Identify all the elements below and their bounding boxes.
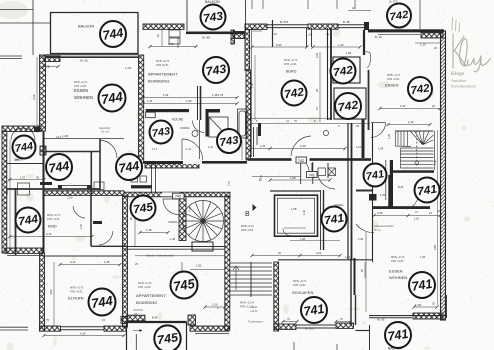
apartment circle 743 balcony [201,5,226,30]
wall bottom hatched d [274,324,296,329]
dim tick 41 [281,320,284,323]
svg-text:MFB +9,70: MFB +9,70 [241,224,254,228]
wall apt745 top hatched [124,192,230,197]
wall corridor y249 [124,248,225,250]
dim 70b line [283,321,297,323]
toilet bar 744 [40,182,52,185]
svg-text:1,10: 1,10 [356,145,362,149]
wall eltern top [45,255,125,257]
apartment circle 741 schlafen [301,297,327,323]
dim tick 29 [148,45,151,48]
door arc essen 742 [363,52,372,69]
dim y240 corridor [290,240,340,242]
dimension y180 [270,179,330,181]
wire window sill essen742 [378,33,420,35]
wall x368 essen left [368,70,370,130]
wall y330 stub [356,330,371,332]
svg-text:741: 741 [387,326,410,344]
wire top tick 3 [307,0,309,9]
dimension vertical x54 [53,262,55,326]
svg-text:ESSEN: ESSEN [385,83,399,88]
apartment circle 744 kind [16,208,41,233]
svg-text:Kreisoberamtsrat: Kreisoberamtsrat [451,85,476,89]
dim tick 0 [250,45,253,48]
wire left small line 1 [0,55,22,57]
wall corner x364 [364,22,369,30]
dim tick 42 [295,320,298,323]
svg-text:KÜCHE: KÜCHE [172,118,183,122]
svg-text:1,98: 1,98 [291,207,297,211]
wall balcony mid bottom [7,163,44,165]
wall pillar hatched [188,315,196,325]
winder stair 742 [395,131,434,170]
apartment circle 741 hall [364,164,387,187]
dim tick 33 [8,178,11,181]
door swing kind [73,206,85,218]
wire bottom tick b [336,344,338,350]
wall x312 [311,163,313,178]
svg-text:1,08: 1,08 [346,51,352,55]
kitchen counter right 743 [208,109,221,113]
wire top dim line right [348,10,371,12]
wall corridor 744 bottom [91,245,125,247]
vanity counter 744 [58,185,92,189]
dimension row y148 [250,148,345,150]
svg-text:1,40: 1,40 [303,210,306,215]
svg-text:BOARDING: BOARDING [148,79,169,84]
dim tick 11 [372,214,375,217]
label box 741 [307,172,318,178]
dimension line 150 [150,46,196,48]
dimension vertical x162 [161,26,163,47]
svg-text:BALKON: BALKON [78,24,94,29]
wall hatch v x231 [231,30,235,44]
svg-text:Klassenschutztür: Klassenschutztür [374,224,394,228]
dim tick 37 [268,178,271,181]
dim tick 31 [138,231,141,234]
svg-text:BALKON: BALKON [205,0,220,4]
door swing 743 a [182,139,203,160]
svg-text:1,05: 1,05 [380,193,386,197]
wall corridor y246 [124,246,225,248]
wc fixtures left of balcony743 [169,30,180,44]
svg-text:741: 741 [411,276,434,294]
dim tick 2 [311,45,314,48]
door swing 743 b [193,121,205,133]
dim tick 15 [90,235,93,238]
dimension line 75 [44,66,58,68]
svg-text:4,18: 4,18 [80,332,86,336]
apartment circle 741 essen upper [415,178,440,203]
wire left small line 2 [0,58,22,60]
wall vertical hatched x245 [245,29,250,70]
apartment circle 744 bath a [46,154,72,180]
svg-text:3,85: 3,85 [5,189,9,195]
wall corridor above bath square [270,190,320,192]
svg-text:FFB +9,81: FFB +9,81 [47,217,60,221]
wall top hatched A [143,24,184,29]
svg-text:MFB +9,70: MFB +9,70 [47,213,61,217]
dimension 314 [10,236,92,238]
svg-text:FFB +9,81: FFB +9,81 [391,259,404,263]
wall vertical hatched x138 between 744 743 [139,55,144,163]
apartment circle 741 balcony [385,322,411,348]
machine room box [192,242,213,251]
svg-text:MFB +9,70: MFB +9,70 [387,73,401,77]
svg-text:MFB +9,70: MFB +9,70 [74,80,88,84]
wire bottom tick a [293,342,295,350]
wall apt743 bottom hatch [145,164,199,168]
svg-text:B: B [245,211,250,218]
wall between baths 744 [90,152,92,196]
closet walls 742 [307,28,312,47]
svg-text:APPARTEMENT: APPARTEMENT [148,72,178,77]
dim tick b2 [122,334,125,337]
dim tick 17 [338,254,341,257]
svg-text:FFB +9,81: FFB +9,81 [293,283,306,287]
dimension row y47 right [313,46,360,48]
room bad 742 upper [333,57,360,83]
door swing 745 entry [163,199,179,215]
svg-text:Nr. 870: Nr. 870 [305,327,314,331]
svg-text:SCHLAFEN: SCHLAFEN [292,290,313,295]
dim tick 12 [438,214,441,217]
wall x347 double [348,123,352,260]
apartment circle 743 room [203,57,229,83]
dark block wall joint [34,127,40,132]
window bottom inner d [296,327,336,329]
svg-text:B 98: B 98 [152,316,158,320]
wall hatch above detail box [127,315,145,321]
wall x327 double [328,28,332,120]
dimension line vertical x37 [36,57,38,133]
apartment circle 743 bath [217,129,241,153]
wall bottom hatched e [336,323,354,328]
wall kind top [7,188,100,190]
svg-text:MFB +9,70: MFB +9,70 [293,279,307,283]
dim y43 right [415,42,440,44]
dim tick 6 [141,102,144,105]
dim y179 [8,179,44,181]
svg-text:1,10: 1,10 [414,217,420,221]
wall vertical hatched x246 lower [246,70,251,160]
wall hatch right of balcony743 [233,32,245,39]
svg-text:VORFL.: VORFL. [180,126,191,130]
apartment circle 742 buero [282,81,307,106]
door swing corridor 741 [318,176,335,189]
svg-text:744: 744 [118,158,141,176]
wall stub x93 [93,221,102,224]
wall essen741 bottom inner [369,317,412,319]
apartment circle 745 vorfl [131,196,156,221]
svg-text:BÜRO: BÜRO [286,70,297,74]
wall x369 to edge [369,325,371,350]
crossed squares [318,168,336,176]
wire balcony743 left edge [186,0,188,31]
dim tick 32 [166,231,169,234]
dim tick 13 [406,214,409,217]
wire small x178 [177,37,179,48]
wall interior y138 [44,138,124,140]
wall x300 below 742 [300,162,302,184]
wire fixture bath [284,227,306,229]
wire top tick 1 [251,0,253,9]
svg-text:741: 741 [303,301,326,319]
spiral stair [183,201,224,242]
dimension row y97 [143,97,237,99]
wall right outer [441,31,446,320]
svg-text:FFB +9,81: FFB +9,81 [387,77,400,81]
apartment circle 745 detail [154,325,180,350]
kitchen counter left 743 [146,109,189,112]
label box 245 [173,193,185,199]
svg-text:2,04: 2,04 [316,251,322,255]
wall y190 right [356,190,372,192]
dimension vertical x242 [241,140,243,160]
svg-text:B: B [259,177,262,182]
dim 139 [414,306,437,308]
dimension row y255 left [135,255,225,257]
dim tick 22 [438,107,441,110]
wire balcony743 right edge [245,0,247,31]
svg-text:FFB +9,81: FFB +9,81 [241,228,254,232]
dim tick 26 [435,305,438,308]
svg-text:2,16: 2,16 [408,120,414,124]
svg-text:MFB +13,04: MFB +13,04 [240,301,255,305]
wall left exterior apt744 hatched [40,55,46,131]
svg-text:1,81: 1,81 [196,264,202,268]
svg-text:744: 744 [48,158,71,176]
dim tick 14 [8,235,11,238]
wire terrace line 2 [0,329,28,331]
apartment circle 744 living [99,85,126,112]
wall x362 below wc room [362,119,365,158]
shower 743 [209,117,228,137]
svg-text:75: 75 [46,65,50,69]
wire top tick 2 [262,0,264,9]
wall divider x100 [99,139,101,190]
apartment circle 745 room [171,272,198,299]
apartment circle 742 wc [335,93,361,119]
wire terrace line 1 [0,326,28,328]
dimension row y123 [250,123,370,125]
wall balcony mid parapet hatched [2,126,41,132]
apartment circle 744 eltern [89,289,116,316]
dim tick 40 [223,305,226,308]
wall x312 below 742 [312,162,314,184]
wall corridor-schlafen y259 [278,259,372,261]
dimension row y103 [143,103,237,105]
dimension vertical x255 [254,55,256,120]
svg-text:B- 10: B- 10 [375,35,382,39]
window dark bar kind [63,186,78,189]
svg-text:MFB +9,70: MFB +9,70 [391,255,405,259]
pantry wall x253 [254,127,258,157]
dim tick 4 [141,96,144,99]
svg-text:FFB +9,81: FFB +9,81 [284,62,297,66]
door arc bath 741 [283,229,290,236]
detail box 745 [127,322,187,350]
svg-text:Trockenraum: Trockenraum [248,320,263,324]
dim tick 3 [358,45,361,48]
wall corridor hatch y191 [44,191,124,196]
svg-text:1,20¹: 1,20¹ [125,66,131,70]
svg-text:für m²: für m² [374,228,381,232]
svg-text:FFB +9,81: FFB +9,81 [70,290,83,294]
svg-text:1,35: 1,35 [420,255,426,259]
wall corridor 744 x91 [90,196,92,246]
straight stair [230,262,272,297]
wall below stair 742 [393,170,434,173]
svg-text:B- 88: B- 88 [343,20,350,24]
dim tick 16 [250,254,253,257]
apartment circle 743 kueche [150,121,173,144]
svg-text:MFB +9,70: MFB +9,70 [284,58,298,62]
svg-text:Nr. 85: Nr. 85 [377,318,385,322]
dim tick 1 [305,45,308,48]
wire vertical property line [32,0,34,55]
svg-text:Wand m. Schutzanstrich: Wand m. Schutzanstrich [146,254,175,258]
dim tick 8 [248,147,251,150]
smoke symbol [323,130,328,135]
window bottom outer a [61,326,105,328]
wall stair core left hatched [225,196,230,330]
dimension row y214 [374,215,440,217]
label box 742 [296,157,307,163]
svg-text:1,57: 1,57 [20,176,26,180]
svg-text:1,48: 1,48 [250,82,254,88]
svg-text:APPARTEMENT: APPARTEMENT [136,293,166,298]
dimension vertical right inside [437,130,439,305]
dimension row y47 left [252,46,307,48]
svg-text:+10,04: +10,04 [250,306,258,309]
dim tick 23 [386,123,389,126]
window bottom inner a [61,329,105,331]
svg-text:3,14: 3,14 [46,232,52,236]
svg-text:Nr. 88: Nr. 88 [202,36,210,40]
svg-text:1,39¹: 1,39¹ [415,303,421,307]
svg-text:2,40: 2,40 [433,159,437,165]
svg-text:1,41: 1,41 [208,145,214,149]
dim tick 25 [412,305,415,308]
svg-text:2,98: 2,98 [32,94,36,100]
dimension vertical left x10 [9,140,11,250]
svg-text:3,63: 3,63 [276,43,282,47]
wall x272 vertical [272,20,274,47]
svg-text:VORFL.: VORFL. [168,220,179,224]
dim y307 [205,306,225,308]
svg-text:1,48: 1,48 [146,228,152,232]
dim tick 24 [428,123,431,126]
wall x328 [327,163,329,178]
svg-text:+10,12: +10,12 [250,310,258,313]
wall bath744 top [43,151,101,153]
wire top tick 4 [336,0,338,9]
dim tick 19 [58,263,61,266]
kitchen bar corridor [131,185,152,188]
wall bottom hatched b [104,326,126,331]
dim tick 34 [42,178,45,181]
dim tick 10 [268,147,271,150]
svg-text:1,54: 1,54 [400,104,406,108]
svg-text:MFB +9,78: MFB +9,78 [138,281,152,285]
svg-text:1,78: 1,78 [218,93,224,97]
apartment circle 741 essenwohnen [409,272,435,298]
wall bottom hatched a [40,326,61,331]
wall essen741 bottom outer [369,315,447,317]
wall right of bath square [321,190,324,250]
apartment circle 742 essen small [408,77,432,101]
svg-text:1,48: 1,48 [212,93,218,97]
wall top window inner C [267,27,308,29]
door swing corridor 744 [99,231,113,245]
dim tick 44 [348,320,351,323]
dim tick 20 [118,263,121,266]
wall stair room left hatched [179,197,186,241]
light symbol 743 [192,131,198,137]
door opening gap 742 entry [292,158,310,161]
svg-text:1,41: 1,41 [186,147,192,151]
svg-text:1,26: 1,26 [387,133,391,139]
door swing stair hall [371,123,386,138]
kitchen step 743 [146,112,156,118]
svg-text:MFB +9,70: MFB +9,70 [156,59,170,63]
dim tick 43 [334,320,337,323]
svg-text:1,16¹: 1,16¹ [67,197,73,200]
dim tick 18 [298,254,301,257]
svg-text:B- 875: B- 875 [280,20,289,24]
wall top hatched D [308,24,338,29]
dim tick 30 [194,45,197,48]
dim tick 27 [42,65,45,68]
wardrobe box kind [18,183,30,195]
dimension row y118 [250,117,330,119]
wall hatch below top right [421,33,443,38]
door swing wc741 [407,197,418,209]
dimension vertical x366 [365,232,367,312]
wire inner face x251 [251,27,253,157]
dimension row y335 bottom [44,335,124,337]
wall balcony bottom double line [46,54,138,56]
door swing essen [100,140,117,158]
svg-text:Glasschutz: Glasschutz [99,127,111,130]
bathroom 741 double square [275,195,318,236]
wall apt743 bottom solid [143,161,247,164]
wall wc741 [373,123,390,262]
svg-text:1,44: 1,44 [378,147,384,151]
wall x363 vertical [363,30,365,55]
door opening gap 743 entry [183,161,202,164]
wall kueche corridor [198,86,201,159]
room 742 lower [334,88,366,119]
svg-text:745: 745 [175,195,181,199]
wire bottom line c [195,333,229,335]
wall x124 between 744 745 [123,196,128,327]
wall below wc741 [372,206,430,209]
apartment circle 742 bad [331,59,356,84]
door swing below 742 [302,161,309,173]
svg-text:Tür m.O: Tür m.O [101,131,110,134]
dim y269 [190,269,225,271]
dimension 216 [388,124,430,126]
svg-text:ESSEN: ESSEN [389,269,403,274]
dimension row y255 [252,255,340,257]
svg-text:3,85: 3,85 [433,244,437,250]
wire thin x385 [385,160,387,200]
dim tick 9 [343,147,346,150]
svg-text:1,92: 1,92 [80,224,83,229]
arrow dim detail box [133,330,142,332]
